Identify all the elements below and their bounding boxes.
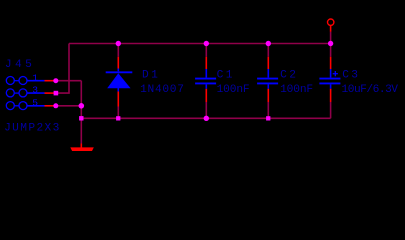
svg-text:100nF: 100nF	[280, 84, 313, 96]
svg-text:C2: C2	[280, 70, 298, 82]
svg-text:100nF: 100nF	[217, 84, 250, 96]
svg-text:D1: D1	[142, 70, 160, 82]
svg-text:10uF/6.3V: 10uF/6.3V	[342, 84, 399, 96]
svg-text:3: 3	[32, 85, 38, 96]
svg-text:JUMP2X3: JUMP2X3	[4, 122, 61, 134]
svg-text:1: 1	[32, 72, 38, 83]
svg-text:5: 5	[32, 97, 38, 108]
svg-text:C3: C3	[342, 70, 360, 82]
svg-text:1N4007: 1N4007	[140, 84, 185, 96]
svg-text:C1: C1	[217, 70, 235, 82]
svg-text:J45: J45	[5, 59, 35, 71]
